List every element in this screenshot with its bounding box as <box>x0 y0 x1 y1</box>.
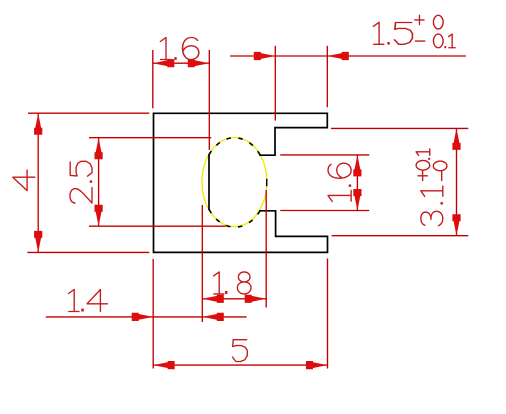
text 3.1 <box>421 186 443 226</box>
arrow right-pointing <box>245 295 267 303</box>
ext line right <box>208 50 210 150</box>
ext line right <box>326 46 328 108</box>
tolerance -0.1 <box>415 34 455 48</box>
dimension 1.5 +0/-0.1 (top tab) <box>230 15 466 120</box>
tolerance +0.1 <box>416 149 430 181</box>
hole right arc dash <box>266 180 268 186</box>
arrow right-pointing <box>306 361 328 369</box>
construction ellipse (yellow, hole profile) <box>202 137 267 226</box>
arrow up <box>95 138 103 160</box>
ext line bottom <box>280 210 369 212</box>
ext line bottom <box>27 251 149 253</box>
dim line <box>456 128 458 235</box>
text 1.5 <box>373 22 412 44</box>
text 2.5 <box>70 161 92 203</box>
ext line right <box>327 259 329 369</box>
arrow left-pointing <box>202 295 224 303</box>
arrow up <box>353 155 361 177</box>
arrow down <box>34 231 42 253</box>
dim line <box>153 364 327 366</box>
ext line right (shared with 1.8) <box>201 205 203 322</box>
arrow down <box>95 205 103 227</box>
tolerance -0 <box>433 161 447 180</box>
text 1.8 <box>214 272 252 294</box>
dimension 1.8 (ellipse width) <box>202 190 266 308</box>
arrow down <box>452 214 460 236</box>
arrow up <box>452 128 460 150</box>
ext line top <box>331 127 468 129</box>
ext line right <box>265 190 267 308</box>
ext line top <box>89 137 211 139</box>
part outline <box>154 113 328 252</box>
tolerance +0 <box>415 15 443 29</box>
text 5 <box>232 340 247 362</box>
hole flat chord <box>208 155 210 210</box>
ext line left <box>152 50 154 108</box>
text 1.6 <box>328 163 351 201</box>
leader/dim line <box>230 55 466 57</box>
ext line top <box>280 154 369 156</box>
dimension 1.6 (top) <box>153 38 210 151</box>
dim line <box>356 155 358 211</box>
dim line <box>98 138 100 227</box>
dimension 1.6 (slot height, right) <box>280 155 369 211</box>
text 4 <box>13 170 35 191</box>
hole top arc (dashed) <box>209 138 260 155</box>
dimension 4 (left) <box>13 113 150 252</box>
text 1.4 <box>69 290 108 312</box>
hole bottom arc (dashed) <box>209 209 260 227</box>
dimension 3.1 +0.1/-0 (right) <box>331 128 468 235</box>
ext line top <box>28 112 149 114</box>
arrow right-pointing <box>132 313 154 321</box>
ext line bottom <box>332 235 469 237</box>
ext line bottom <box>89 225 226 227</box>
ext line left (shared with 5) <box>152 259 154 369</box>
arrow left-pointing <box>202 313 224 321</box>
dimension 5 (overall width) <box>153 259 327 370</box>
arrow left <box>153 59 175 67</box>
dimension 1.4 (bottom left) <box>46 205 247 369</box>
dim line <box>202 298 266 300</box>
arrow left-pointing <box>327 52 349 60</box>
dim/leader line <box>46 316 247 318</box>
arrow left-pointing <box>153 361 175 369</box>
arrow down <box>353 189 361 211</box>
arrow up <box>34 113 42 135</box>
text 1.6 <box>160 38 199 60</box>
arrow right <box>188 59 210 67</box>
ext line left <box>274 46 276 121</box>
arrow right-pointing <box>254 52 276 60</box>
dim line <box>153 62 210 64</box>
dim line <box>37 113 39 252</box>
dimension 2.5 (ellipse height) <box>70 138 226 227</box>
